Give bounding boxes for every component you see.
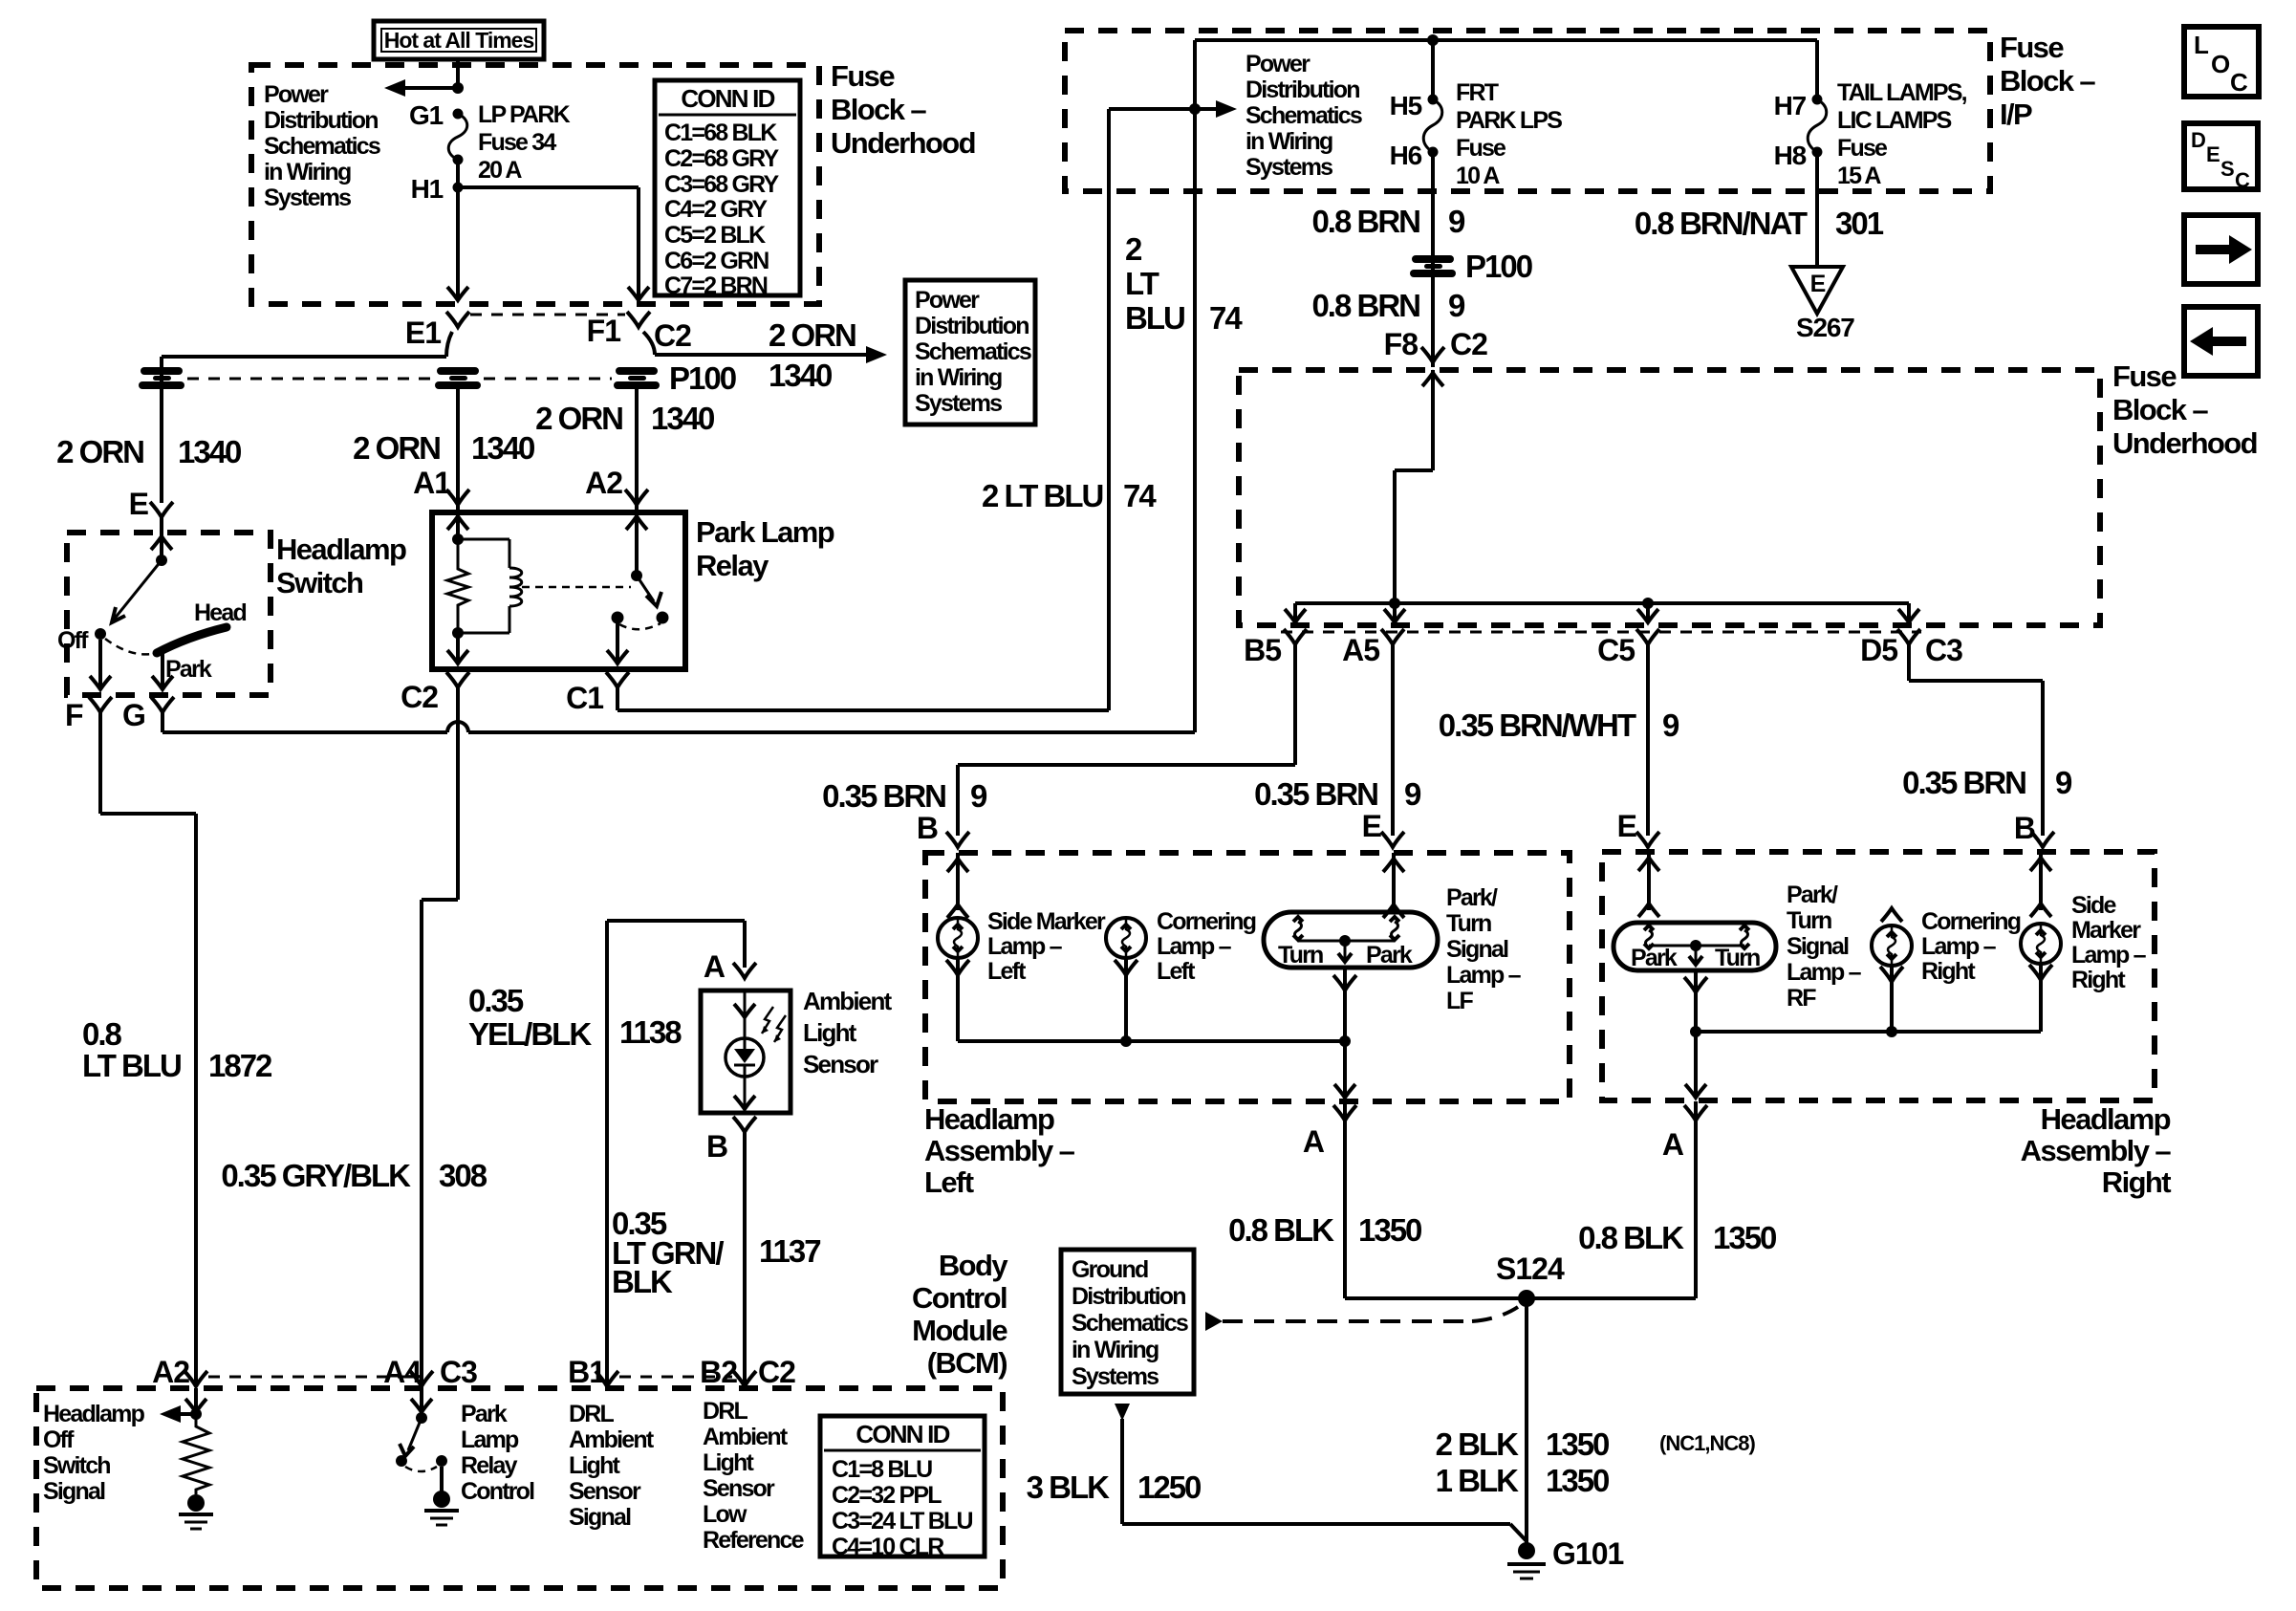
lamp side marker left <box>938 918 978 958</box>
sensor box <box>701 991 791 1113</box>
svg-text:9: 9 <box>1404 776 1421 812</box>
svg-text:Headlamp: Headlamp <box>276 533 406 566</box>
svg-text:S124: S124 <box>1496 1252 1565 1286</box>
svg-text:Left: Left <box>987 958 1027 985</box>
connector row <box>208 1376 411 1379</box>
svg-text:1138: 1138 <box>619 1014 682 1050</box>
junction dot G wire joins ref arrow <box>1189 103 1201 115</box>
svg-text:YEL/BLK: YEL/BLK <box>468 1016 592 1052</box>
wire G 2 LT BLU 74 to I/P fuse block <box>161 712 164 732</box>
svg-text:A: A <box>1303 1124 1325 1159</box>
svg-text:Turn: Turn <box>1787 907 1831 934</box>
svg-text:0.8 BLK: 0.8 BLK <box>1578 1220 1684 1255</box>
switch wiper arm <box>114 560 162 620</box>
Power Distribution Schematics note (underhood) <box>264 81 380 211</box>
svg-text:C2=32 PPL: C2=32 PPL <box>832 1482 942 1509</box>
connector E1 <box>446 312 469 327</box>
svg-text:20 A: 20 A <box>478 157 522 184</box>
svg-text:H8: H8 <box>1774 141 1807 170</box>
svg-text:Light: Light <box>803 1018 857 1047</box>
connector P100 grommet left <box>139 367 184 389</box>
svg-text:Fuse: Fuse <box>2112 359 2177 393</box>
svg-text:Signal: Signal <box>1446 936 1508 963</box>
svg-text:DRL: DRL <box>703 1398 748 1425</box>
svg-text:Light: Light <box>569 1452 621 1479</box>
dashed ref arrow to S124 <box>1205 1312 1223 1331</box>
svg-text:G101: G101 <box>1552 1536 1623 1571</box>
svg-text:S: S <box>2220 157 2234 181</box>
svg-text:C2=68 GRY: C2=68 GRY <box>664 145 779 172</box>
svg-text:Switch: Switch <box>276 566 363 599</box>
svg-text:Light: Light <box>703 1449 755 1476</box>
svg-text:2 ORN: 2 ORN <box>56 434 143 469</box>
svg-text:B2: B2 <box>700 1355 737 1389</box>
svg-text:Lamp –: Lamp – <box>987 933 1063 960</box>
svg-text:TAIL LAMPS,: TAIL LAMPS, <box>1837 79 1967 106</box>
svg-text:LIC LAMPS: LIC LAMPS <box>1837 107 1952 134</box>
wire H1 branch to F1 <box>458 185 639 189</box>
svg-text:Distribution: Distribution <box>1072 1283 1185 1310</box>
svg-text:Schematics: Schematics <box>915 338 1031 365</box>
svg-text:Relay: Relay <box>461 1452 518 1479</box>
B2 input text <box>703 1398 805 1554</box>
svg-text:9: 9 <box>1448 288 1465 323</box>
svg-text:Control: Control <box>912 1281 1007 1315</box>
Power Distribution Schematics box (solid) <box>905 280 1035 425</box>
svg-text:PARK LPS: PARK LPS <box>1456 107 1562 134</box>
svg-text:LT BLU: LT BLU <box>82 1048 181 1083</box>
ground internal BCM <box>187 1494 205 1512</box>
P100 connector row <box>187 378 432 381</box>
wire D5/C3 0.35 BRN 9 to right side marker <box>1907 644 1911 681</box>
Power Distribution Schematics note (I/P) <box>1245 51 1362 181</box>
svg-text:Sensor: Sensor <box>803 1050 878 1078</box>
svg-text:Head: Head <box>194 599 246 626</box>
svg-text:C4=10 CLR: C4=10 CLR <box>832 1534 944 1560</box>
svg-text:1340: 1340 <box>651 401 714 436</box>
svg-text:Ambient: Ambient <box>803 987 893 1015</box>
svg-text:in Wiring: in Wiring <box>915 364 1002 391</box>
Hot at All Times box <box>374 21 544 59</box>
wire Off output to pin F <box>98 640 102 689</box>
svg-text:Distribution: Distribution <box>264 107 378 134</box>
svg-text:2 ORN: 2 ORN <box>769 317 856 353</box>
svg-text:Reference: Reference <box>703 1527 805 1554</box>
svg-text:C2: C2 <box>401 680 438 714</box>
svg-text:Block –: Block – <box>831 93 926 126</box>
B1 input text <box>569 1401 655 1531</box>
wire B5 0.35 BRN 9 to left side marker <box>1293 644 1297 765</box>
svg-text:A: A <box>1662 1127 1684 1162</box>
mechanical link coil to contacts <box>522 586 631 589</box>
svg-text:DRL: DRL <box>569 1401 615 1427</box>
svg-text:I/P: I/P <box>2000 98 2032 131</box>
svg-text:A2: A2 <box>152 1355 189 1389</box>
svg-text:Schematics: Schematics <box>1072 1310 1188 1337</box>
svg-text:G1: G1 <box>409 100 444 130</box>
junction dot park/turn LF to bus <box>1339 1035 1351 1047</box>
wire C2 0.35 GRY/BLK 308 to BCM A4 <box>456 687 460 900</box>
svg-text:2 ORN: 2 ORN <box>353 430 440 466</box>
svg-text:Lamp –: Lamp – <box>1921 933 1997 960</box>
lamp cornering left <box>1106 918 1146 958</box>
resistor relay suppression <box>447 539 468 633</box>
wire C5 0.35 BRN/WHT 9 to RF park/turn <box>1646 644 1650 836</box>
svg-text:Headlamp: Headlamp <box>2041 1102 2171 1136</box>
svg-text:G: G <box>122 698 145 732</box>
svg-text:C3: C3 <box>440 1355 477 1389</box>
svg-text:1350: 1350 <box>1358 1212 1421 1248</box>
svg-text:Ground: Ground <box>1072 1256 1148 1283</box>
wire 2 ORN 1340 to headlamp switch pin E <box>160 357 163 503</box>
svg-text:CONN ID: CONN ID <box>681 84 774 113</box>
svg-text:Assembly –: Assembly – <box>924 1134 1075 1167</box>
svg-text:1872: 1872 <box>208 1048 272 1083</box>
svg-text:D5: D5 <box>1860 633 1897 667</box>
svg-text:Module: Module <box>912 1314 1007 1347</box>
connector P100 grommet right <box>614 367 660 389</box>
svg-text:Distribution: Distribution <box>915 313 1029 339</box>
svg-text:Off: Off <box>57 627 89 654</box>
svg-text:O: O <box>2211 50 2230 78</box>
BCM CONN ID table <box>820 1416 985 1560</box>
svg-text:BLK: BLK <box>612 1264 673 1299</box>
relay C2 output <box>456 633 460 663</box>
svg-text:Headlamp: Headlamp <box>924 1102 1054 1136</box>
svg-text:308: 308 <box>439 1158 487 1193</box>
fuse FRT PARK LPS 10 A <box>1423 99 1442 152</box>
Fuse Block Underhood (top left) dashed box <box>251 65 819 304</box>
svg-text:H1: H1 <box>411 174 444 204</box>
wire sensor B 0.35 LT GRN/BLK 1137 to BCM B2 <box>743 1132 747 1386</box>
connector pin F <box>89 697 112 712</box>
svg-text:0.35 BRN: 0.35 BRN <box>822 778 945 814</box>
light rays <box>762 1007 773 1034</box>
svg-text:RF: RF <box>1787 985 1816 1012</box>
connector row below box <box>1281 631 1921 634</box>
wire from Hot box to fuse block <box>456 59 460 88</box>
svg-text:D: D <box>2191 128 2205 152</box>
svg-text:Sensor: Sensor <box>703 1475 775 1502</box>
svg-text:C3=24 LT BLU: C3=24 LT BLU <box>832 1508 972 1535</box>
svg-text:Fuse: Fuse <box>831 59 895 93</box>
fuse TAIL LAMPS LIC LAMPS 15 A <box>1808 99 1827 152</box>
svg-text:1340: 1340 <box>471 430 534 466</box>
svg-text:Side Marker: Side Marker <box>987 908 1106 935</box>
svg-text:0.35: 0.35 <box>468 983 524 1018</box>
coil relay winding <box>458 538 509 541</box>
lamp park/turn signal RF <box>1614 923 1776 970</box>
svg-text:Ambient: Ambient <box>569 1426 655 1453</box>
junction dot bus at A5 <box>1389 598 1400 609</box>
junction dot bus at C5 <box>1642 598 1654 609</box>
svg-text:CONN ID: CONN ID <box>856 1420 949 1448</box>
svg-text:C2: C2 <box>758 1355 795 1389</box>
svg-text:0.8: 0.8 <box>82 1016 122 1052</box>
ground splice S267 <box>1791 267 1843 314</box>
E entry to park/turn lamp LF <box>1392 853 1396 910</box>
svg-text:A4: A4 <box>383 1355 422 1389</box>
ground G101 <box>1518 1542 1535 1559</box>
svg-text:0.8 BRN: 0.8 BRN <box>1311 288 1419 323</box>
wire F 0.8 LT BLU 1872 to BCM A2 <box>98 712 102 814</box>
svg-text:Ambient: Ambient <box>703 1424 789 1450</box>
photodiode ambient light sensor <box>726 1038 764 1077</box>
svg-text:9: 9 <box>1662 708 1679 743</box>
svg-text:1350: 1350 <box>1546 1426 1609 1462</box>
svg-text:Turn: Turn <box>1715 945 1760 971</box>
svg-text:H7: H7 <box>1774 91 1807 120</box>
svg-text:F1: F1 <box>587 314 621 348</box>
svg-text:0.35 GRY/BLK: 0.35 GRY/BLK <box>221 1158 411 1193</box>
svg-text:Switch: Switch <box>43 1452 110 1479</box>
wire A left 0.8 BLK 1350 to S124 <box>1343 1101 1347 1298</box>
ground internal BCM driver <box>433 1491 450 1508</box>
svg-text:2 LT BLU: 2 LT BLU <box>982 478 1103 513</box>
svg-text:Marker: Marker <box>2071 917 2141 944</box>
wire hop over C2 wire <box>447 722 468 732</box>
svg-text:C1: C1 <box>566 681 603 715</box>
wire left assembly ground bus <box>958 1039 1345 1043</box>
svg-text:Turn: Turn <box>1278 942 1323 969</box>
svg-text:Right: Right <box>2071 967 2126 993</box>
svg-text:B5: B5 <box>1244 633 1281 667</box>
DESC box <box>2184 123 2258 192</box>
svg-text:C4=2 GRY: C4=2 GRY <box>664 196 768 223</box>
svg-text:H5: H5 <box>1390 91 1422 120</box>
svg-text:Underhood: Underhood <box>2112 426 2257 460</box>
svg-text:A1: A1 <box>413 466 450 500</box>
wire A5 0.35 BRN 9 to LF park/turn <box>1391 644 1395 836</box>
svg-text:Fuse 34: Fuse 34 <box>478 129 556 156</box>
svg-text:2: 2 <box>1125 231 1142 267</box>
contact arc Head/Park <box>157 627 227 653</box>
connector P100 grommet <box>1410 255 1456 277</box>
svg-text:B: B <box>917 811 938 845</box>
svg-text:E: E <box>1617 809 1637 843</box>
junction dot cornering left to bus <box>1120 1035 1132 1047</box>
wire fuse output down to E1 <box>456 160 460 299</box>
svg-text:Control: Control <box>461 1478 534 1505</box>
svg-text:in Wiring: in Wiring <box>1072 1337 1159 1363</box>
E entry to park/turn lamp RF <box>1647 852 1651 910</box>
svg-text:0.35 BRN/WHT: 0.35 BRN/WHT <box>1439 708 1636 743</box>
svg-text:Power: Power <box>915 287 980 314</box>
junction dot node G1 feed <box>384 79 405 97</box>
svg-text:C7=2 BRN: C7=2 BRN <box>664 272 768 299</box>
wire F1 take-off right (2 ORN 1340) to power distribution <box>643 332 655 355</box>
junction dot cornering right to bus <box>1886 1026 1897 1037</box>
wire feed bus in I/P fuse block <box>1195 38 1817 42</box>
wire B1 0.35 YEL/BLK 1138 to sensor pin A <box>605 921 609 1386</box>
svg-text:B1: B1 <box>568 1355 605 1389</box>
svg-text:1350: 1350 <box>1546 1463 1609 1498</box>
svg-text:C2: C2 <box>1450 327 1487 361</box>
svg-text:0.8 BRN/NAT: 0.8 BRN/NAT <box>1635 206 1808 241</box>
relay switch common node <box>631 570 642 581</box>
contact Off <box>95 628 106 640</box>
svg-text:L: L <box>2194 31 2209 59</box>
svg-text:1250: 1250 <box>1137 1469 1201 1505</box>
svg-text:E1: E1 <box>405 316 441 350</box>
junction dot park/turn RF to bus <box>1690 1026 1701 1037</box>
svg-text:Right: Right <box>2102 1165 2171 1199</box>
svg-text:Park/: Park/ <box>1787 882 1838 908</box>
svg-text:1340: 1340 <box>178 434 241 469</box>
svg-text:B: B <box>706 1129 727 1164</box>
lamp side marker right <box>2021 924 2061 964</box>
LOC box <box>2184 27 2259 97</box>
svg-text:Left: Left <box>924 1165 974 1199</box>
svg-text:Lamp: Lamp <box>461 1426 519 1453</box>
junction dot bus to fuse FRT PARK LPS <box>1427 34 1439 46</box>
svg-text:Power: Power <box>264 81 329 108</box>
svg-text:Signal: Signal <box>569 1504 631 1531</box>
left arrow box <box>2184 307 2258 376</box>
E1 / F1 connectors <box>470 314 625 316</box>
svg-text:BLU: BLU <box>1125 300 1184 336</box>
wire 0.8 BRN/NAT 301 from H8 to S267 <box>1815 152 1819 267</box>
svg-text:9: 9 <box>1448 204 1465 239</box>
A exit right <box>1694 1032 1698 1097</box>
svg-text:Systems: Systems <box>1072 1363 1159 1390</box>
svg-text:Turn: Turn <box>1446 910 1491 937</box>
svg-text:Lamp –: Lamp – <box>1157 933 1232 960</box>
svg-text:(BCM): (BCM) <box>927 1346 1007 1380</box>
svg-text:A5: A5 <box>1342 633 1379 667</box>
svg-text:Lamp –: Lamp – <box>1787 959 1862 986</box>
ref arrow to I/P power distribution <box>1109 107 1220 111</box>
svg-text:Signal: Signal <box>43 1478 105 1505</box>
svg-text:74: 74 <box>1123 478 1157 513</box>
svg-text:9: 9 <box>2055 765 2072 800</box>
node headlamp off switch signal input <box>194 1388 198 1414</box>
wire distribution bus <box>1295 601 1909 605</box>
svg-text:LF: LF <box>1446 988 1473 1014</box>
relay node A1 <box>452 533 464 545</box>
svg-text:Off: Off <box>43 1426 75 1453</box>
svg-text:Fuse: Fuse <box>2000 31 2064 64</box>
svg-text:Park/: Park/ <box>1446 884 1498 911</box>
svg-text:Park: Park <box>1631 945 1678 971</box>
svg-text:C1=8 BLU: C1=8 BLU <box>832 1456 932 1483</box>
svg-text:Schematics: Schematics <box>264 133 380 160</box>
svg-text:1 BLK: 1 BLK <box>1436 1463 1520 1498</box>
svg-text:1137: 1137 <box>759 1233 820 1269</box>
svg-text:0.35 BRN: 0.35 BRN <box>1902 765 2025 800</box>
wire feed into underhood fuse block <box>1431 370 1435 470</box>
svg-text:E: E <box>129 487 149 521</box>
svg-text:S267: S267 <box>1796 313 1854 342</box>
svg-text:Distribution: Distribution <box>1245 76 1359 103</box>
svg-text:E: E <box>1810 271 1826 297</box>
svg-text:B: B <box>2014 811 2035 845</box>
wire 0.8 BRN 9 from H6 to F8/C2 <box>1431 152 1435 367</box>
svg-text:301: 301 <box>1835 206 1884 241</box>
B entry / side marker left <box>956 853 960 910</box>
wire 3 BLK 1250 to G101 <box>1115 1404 1130 1421</box>
svg-text:1350: 1350 <box>1713 1220 1776 1255</box>
lamp cornering right <box>1881 908 1902 922</box>
wire relay output to pin C1 <box>616 623 619 663</box>
wire S124 to ground G101 (2 BLK / 1 BLK 1350) <box>1525 1298 1528 1543</box>
wire 2 ORN 1340 to relay pin A2 <box>635 389 639 512</box>
wire E1 take-off left (2 ORN 1340) <box>446 332 452 357</box>
Fuse Block - Underhood title <box>831 59 975 160</box>
svg-text:Fuse: Fuse <box>1456 135 1506 162</box>
svg-text:Right: Right <box>1921 958 1976 985</box>
svg-text:C: C <box>2235 168 2250 192</box>
B wire down to BCM B2 <box>733 1117 756 1132</box>
side marker lamp right / B entry <box>2039 852 2043 910</box>
svg-text:3 BLK: 3 BLK <box>1027 1469 1111 1505</box>
A exit left <box>1343 1041 1347 1097</box>
ref arrow to power distribution <box>401 86 458 90</box>
svg-text:A: A <box>704 949 726 984</box>
svg-text:Systems: Systems <box>915 390 1002 417</box>
svg-text:LT: LT <box>1125 266 1159 301</box>
resistor BCM pull-down <box>183 1414 209 1494</box>
relay switch A2 side <box>635 512 639 576</box>
svg-text:(NC1,NC8): (NC1,NC8) <box>1659 1431 1755 1455</box>
svg-text:C3: C3 <box>1925 633 1962 667</box>
svg-text:Power: Power <box>1245 51 1310 77</box>
svg-text:Low: Low <box>703 1501 747 1528</box>
svg-text:Schematics: Schematics <box>1245 102 1362 129</box>
svg-text:Side: Side <box>2071 892 2116 919</box>
svg-text:9: 9 <box>970 778 987 814</box>
svg-text:C3=68 GRY: C3=68 GRY <box>664 171 779 198</box>
svg-text:P100: P100 <box>1465 249 1532 284</box>
svg-text:0.35 BRN: 0.35 BRN <box>1254 776 1377 812</box>
svg-text:Signal: Signal <box>1787 933 1849 960</box>
svg-text:Block –: Block – <box>2000 64 2095 98</box>
svg-text:74: 74 <box>1209 300 1243 336</box>
connector pin G <box>151 697 174 712</box>
svg-text:E: E <box>1362 809 1382 843</box>
svg-text:in Wiring: in Wiring <box>1245 128 1332 155</box>
svg-text:Fuse: Fuse <box>1837 135 1888 162</box>
svg-text:F8: F8 <box>1384 327 1419 361</box>
svg-text:Cornering: Cornering <box>1921 908 2021 935</box>
wire right assembly ground bus <box>1696 1030 2041 1034</box>
svg-text:P100: P100 <box>669 360 736 396</box>
svg-text:FRT: FRT <box>1456 79 1499 106</box>
svg-text:0.8 BRN: 0.8 BRN <box>1311 204 1419 239</box>
svg-text:Relay: Relay <box>696 549 769 582</box>
wire Park output to pin G <box>161 652 164 689</box>
svg-text:1340: 1340 <box>769 358 832 393</box>
svg-text:Park: Park <box>1366 942 1413 969</box>
svg-text:Assembly –: Assembly – <box>2021 1134 2172 1167</box>
svg-text:Sensor: Sensor <box>569 1478 641 1505</box>
svg-text:Cornering: Cornering <box>1157 908 1256 935</box>
A1 feed into relay <box>456 512 460 539</box>
svg-text:C: C <box>2230 68 2248 97</box>
svg-text:Body: Body <box>939 1249 1008 1282</box>
svg-text:E: E <box>2206 142 2220 166</box>
svg-text:C2: C2 <box>654 318 691 353</box>
svg-text:Headlamp: Headlamp <box>43 1401 145 1427</box>
svg-text:Block –: Block – <box>2112 393 2208 426</box>
svg-text:Hot at All Times: Hot at All Times <box>384 28 534 53</box>
svg-text:F: F <box>65 698 83 732</box>
svg-text:Lamp –: Lamp – <box>2071 942 2147 969</box>
node park lamp relay control driver <box>420 1388 423 1418</box>
svg-text:Lamp –: Lamp – <box>1446 962 1522 989</box>
svg-text:H6: H6 <box>1390 141 1422 170</box>
svg-text:Systems: Systems <box>1245 154 1332 181</box>
